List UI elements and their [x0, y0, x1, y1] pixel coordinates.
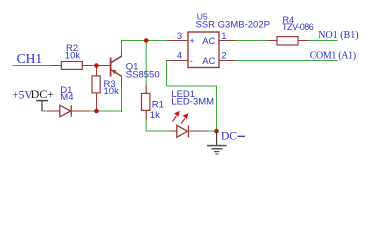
svg-text:R1: R1 — [152, 99, 164, 110]
svg-text:-: - — [190, 56, 193, 67]
svg-text:M4: M4 — [60, 92, 73, 103]
svg-text:NO1 (B1): NO1 (B1) — [318, 30, 358, 41]
svg-text:1: 1 — [221, 31, 226, 42]
svg-text:TZV-086: TZV-086 — [282, 22, 314, 32]
svg-text:DC: DC — [221, 131, 237, 143]
svg-text:AC: AC — [202, 36, 215, 47]
svg-text:4: 4 — [177, 50, 182, 61]
svg-text:2: 2 — [221, 50, 226, 61]
svg-text:SSR G3MB-202P: SSR G3MB-202P — [196, 20, 270, 31]
svg-text:10k: 10k — [65, 51, 81, 62]
svg-text:1k: 1k — [150, 110, 160, 121]
svg-text:3: 3 — [177, 31, 182, 42]
svg-text:COM1 (A1): COM1 (A1) — [310, 51, 356, 62]
svg-text:CH1: CH1 — [17, 51, 43, 66]
svg-text:+: + — [189, 36, 195, 47]
svg-text:DC+: DC+ — [31, 87, 55, 101]
svg-text:LED-3MM: LED-3MM — [171, 97, 214, 108]
svg-text:AC: AC — [202, 56, 215, 67]
svg-text:SS8550: SS8550 — [126, 70, 160, 81]
svg-text:10k: 10k — [104, 86, 120, 97]
